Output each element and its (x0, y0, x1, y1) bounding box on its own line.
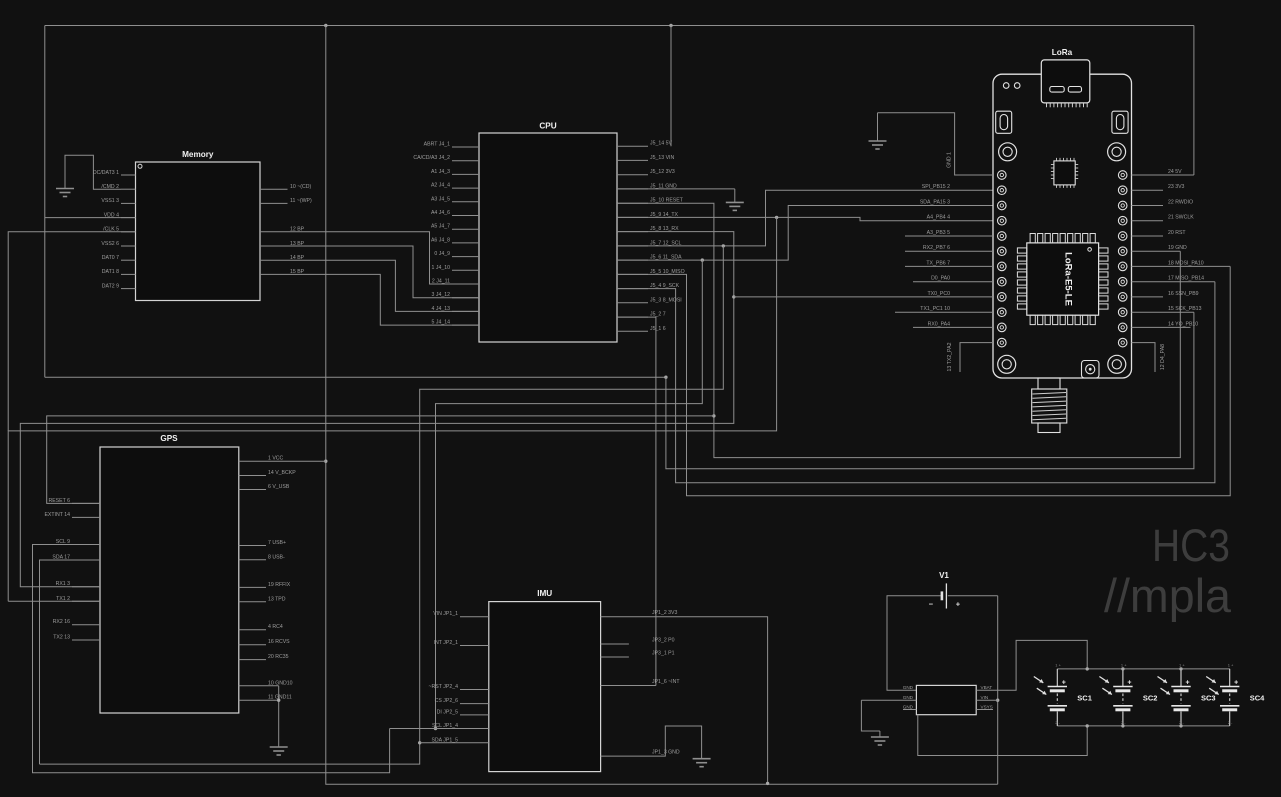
svg-text:19 GND: 19 GND (1168, 245, 1187, 251)
wire charger gnd2 (861, 700, 880, 731)
gps pin EXTINT 14 (72, 516, 100, 518)
imu pin SCL JP1_4 (390, 728, 489, 730)
cpu pin J5_8 13_RX (617, 231, 648, 233)
lora board outline (993, 74, 1132, 378)
svg-text:J5_5 10_MISO: J5_5 10_MISO (650, 269, 685, 275)
gps pin 8 USB- (239, 559, 266, 561)
imu pin VIN JP1_1 (460, 616, 489, 618)
wire cpu gnd (617, 188, 735, 190)
svg-text:SCL JP1_4: SCL JP1_4 (432, 723, 458, 729)
wire charger bottom pin to solar minus (918, 715, 1087, 756)
gps pin 14 V_BCKP (239, 475, 266, 477)
svg-text:2 -: 2 - (1055, 720, 1060, 725)
gps pin 20 RC35 (239, 659, 266, 661)
node solar SC2 bottom (1121, 724, 1124, 727)
cpu pin J5_7 12_SCL (617, 245, 648, 247)
svg-text:13 TX2_PA2: 13 TX2_PA2 (947, 342, 953, 371)
solar cell SC3 (1180, 669, 1182, 686)
node solar SC2 top (1121, 667, 1124, 670)
svg-text:13 TPD: 13 TPD (268, 596, 286, 602)
cpu pin A6 J4_8 (452, 242, 479, 244)
svg-text:GND: GND (903, 685, 914, 690)
cpu block (479, 133, 617, 342)
lora pin A3_PB3 5 (905, 235, 993, 237)
gps pin RESET 6 (72, 502, 100, 504)
wire GPS SDA drop (40, 560, 101, 764)
svg-text:VSS1 3: VSS1 3 (101, 198, 119, 204)
memory pin VSS2 6 (121, 245, 136, 247)
svg-text:+: + (1234, 680, 1238, 687)
svg-text:J5_12 3V3: J5_12 3V3 (650, 169, 675, 175)
svg-text:2 J4_11: 2 J4_11 (432, 279, 450, 285)
cpu pin J5_5 10_MISO (617, 273, 648, 275)
svg-text:SC2: SC2 (1143, 694, 1158, 703)
memory pin VSS1 3 (121, 202, 136, 204)
memory pin VDD 4 (121, 217, 136, 219)
lora pin 13 TX2_PA2 (960, 343, 993, 372)
svg-text:15 BP: 15 BP (290, 269, 305, 275)
lora pin TX1_PC1 10 (895, 311, 993, 313)
svg-text:+: + (1062, 680, 1066, 687)
wire 5V rail left drop (44, 26, 46, 378)
node IMU SCL junction (434, 727, 437, 730)
memory pin 14 BP (260, 260, 479, 311)
wire CPU SCL drop (40, 246, 724, 764)
gps block (100, 447, 239, 713)
svg-text:GND 1: GND 1 (947, 152, 953, 168)
charger pin VBAT (976, 640, 1087, 690)
lora pin 20 RST (1132, 235, 1164, 237)
lora pin GND 1 (878, 113, 994, 175)
wire Memory VDD feed (45, 217, 136, 219)
imu block (489, 602, 601, 772)
gps pin TX1 2 (72, 600, 100, 602)
imu pin JP3_2 P0 (601, 643, 629, 645)
imu pin CS JP2_6 (460, 703, 489, 705)
svg-text:SDA JP1_5: SDA JP1_5 (431, 737, 458, 743)
svg-text:JP1_6 ~INT: JP1_6 ~INT (652, 679, 680, 685)
svg-text:A3 J4_5: A3 J4_5 (431, 196, 450, 202)
gps pin 4 RC4 (239, 629, 266, 631)
cpu pin 0 J4_9 (452, 256, 479, 258)
wire Memory CLK feed (8, 232, 135, 431)
svg-text:INT JP2_1: INT JP2_1 (434, 640, 459, 646)
svg-text:DI JP2_5: DI JP2_5 (437, 709, 458, 715)
gps pin SDA 17 (72, 559, 100, 561)
svg-text:+: + (956, 600, 961, 609)
svg-text:J5_8 13_RX: J5_8 13_RX (650, 226, 679, 232)
svg-text:1 J4_10: 1 J4_10 (432, 265, 451, 271)
ground charger (879, 731, 881, 737)
svg-text:+: + (1185, 680, 1189, 687)
svg-text:−: − (929, 600, 934, 609)
cpu pin J5_14 5V (617, 145, 648, 147)
lora mount hole bottom-right (1108, 355, 1126, 373)
svg-text:3 J4_12: 3 J4_12 (432, 292, 451, 298)
svg-text:RESET 6: RESET 6 (48, 498, 70, 504)
cpu pin 3 J4_12 (452, 297, 479, 299)
lora usb pins (1046, 103, 1048, 107)
lora usb pad right (1068, 87, 1081, 93)
wire GPS RESET riser (47, 416, 714, 504)
lora ufl connector (1082, 361, 1100, 379)
memory pin 11 ~(WP) (260, 202, 288, 204)
lora pin 22 RWDIO (1132, 205, 1164, 207)
imu pin JP1_6 ~INT (601, 685, 656, 687)
svg-text:A5 J4_7: A5 J4_7 (431, 224, 450, 230)
ground gps (270, 746, 288, 748)
cpu pin 4 J4_13 (452, 310, 479, 312)
svg-text:ABRT J4_1: ABRT J4_1 (424, 142, 450, 148)
svg-text:LoRa-E5-LE: LoRa-E5-LE (1063, 252, 1074, 306)
cpu pin J5_12 3V3 (617, 174, 648, 176)
node 5V junction x671 (669, 24, 672, 27)
svg-text:SC1: SC1 (1077, 694, 1092, 703)
charger pin GND2 (861, 699, 916, 701)
wire power bus x=325.8 (326, 26, 998, 785)
lora pin 23 3V3 (1132, 189, 1164, 191)
svg-text:2 -: 2 - (1179, 720, 1184, 725)
svg-text:DC/DAT3 1: DC/DAT3 1 (93, 170, 119, 176)
svg-text:J5_4 9_SCK: J5_4 9_SCK (650, 283, 680, 289)
svg-text:J5_3 8_MOSI: J5_3 8_MOSI (650, 297, 682, 303)
gps pin 16 RCVS (239, 644, 266, 646)
ground cpu (726, 201, 744, 203)
charger pin GND3 (903, 709, 916, 711)
svg-text:V1: V1 (939, 571, 949, 580)
charger block U3 (916, 685, 976, 714)
lora pin 12 D4_PA8 (1132, 343, 1156, 372)
svg-text:20 RST: 20 RST (1168, 230, 1186, 236)
node gps gnd junction (277, 699, 280, 702)
svg-text:A2 J4_4: A2 J4_4 (431, 183, 450, 189)
cpu pin 2 J4_11 (452, 283, 479, 285)
svg-text:SCL 9: SCL 9 (56, 539, 70, 545)
node solar minus junction (1086, 724, 1089, 727)
svg-text:SDA_PA15 3: SDA_PA15 3 (920, 200, 950, 206)
cpu pin J5_2 7 (617, 316, 648, 318)
svg-text:7 USB+: 7 USB+ (268, 540, 286, 546)
wire solar minus rail (1057, 725, 1229, 727)
node GPS VCC junction (324, 460, 327, 463)
svg-text:GND: GND (903, 695, 914, 700)
svg-text:16 SSN_PB9: 16 SSN_PB9 (1168, 291, 1199, 297)
svg-text:JP1_3 GND: JP1_3 GND (652, 750, 680, 756)
lora pin 18 MOSI_PA10 (1132, 265, 1231, 267)
node CPU SDA junction (701, 258, 704, 261)
svg-text:J5_14 5V: J5_14 5V (650, 141, 672, 147)
svg-text:10 GND10: 10 GND10 (268, 680, 293, 686)
lora pad slot left (996, 111, 1012, 133)
wire CPU TX to LoRa A4 run (617, 217, 993, 220)
svg-text:JP3_2 P0: JP3_2 P0 (652, 638, 675, 644)
svg-text:Memory: Memory (182, 150, 214, 159)
svg-text:VIN JP1_1: VIN JP1_1 (433, 611, 458, 617)
lora pin TX_PB6 7 (905, 265, 993, 267)
svg-text:18 MOSI_PA10: 18 MOSI_PA10 (1168, 260, 1204, 266)
svg-text:VSS2 6: VSS2 6 (101, 241, 119, 247)
svg-text:GND: GND (903, 704, 914, 709)
cpu pin J5_4 9_SCK (617, 288, 648, 290)
cpu pin J5_9 14_TX (617, 216, 648, 218)
svg-text:A4 J4_6: A4 J4_6 (431, 210, 450, 216)
lora sma antenna connector (1038, 378, 1060, 389)
svg-text:1 +: 1 + (1121, 663, 1127, 668)
imu pin JP1_2 3V3 (601, 617, 768, 784)
cpu pin A3 J4_5 (452, 201, 479, 203)
lora mount hole bottom-left (998, 355, 1016, 373)
lora pad slot right (1112, 111, 1128, 133)
wire CPU RESET net (617, 203, 1180, 457)
node 5V junction (665.9,377.2) (664, 376, 667, 379)
wire CPU SCK net (617, 282, 1215, 483)
svg-text:RX1 3: RX1 3 (56, 581, 71, 587)
svg-text:1 VCC: 1 VCC (268, 456, 284, 462)
gps pin 7 USB+ (239, 545, 266, 547)
gps pin 10 GND10 (239, 685, 279, 687)
svg-text:DAT0 7: DAT0 7 (102, 255, 119, 261)
cpu pin A2 J4_4 (452, 187, 479, 189)
wire solar plus rail (1057, 668, 1230, 670)
lora fiducial left (1003, 83, 1009, 89)
svg-text:J5_1 6: J5_1 6 (650, 326, 666, 332)
svg-text:1 +: 1 + (1228, 663, 1234, 668)
gps pin RX2 16 (72, 624, 100, 626)
svg-text:19 RFFIX: 19 RFFIX (268, 582, 291, 588)
ground lora (877, 113, 879, 141)
lora pin 16 SSN_PB9 (1132, 296, 1164, 298)
svg-text:16 RCVS: 16 RCVS (268, 639, 290, 645)
svg-text:TX_PB6 7: TX_PB6 7 (926, 260, 950, 266)
svg-text:SDA 17: SDA 17 (52, 555, 70, 561)
svg-text:RX0_PA4: RX0_PA4 (928, 321, 951, 327)
gps pin 1 VCC (239, 460, 326, 462)
wire CPU TX drop (8, 217, 776, 601)
lora chip U1 LoRa-E5-LE (1027, 243, 1099, 315)
lora usb pad left (1050, 87, 1064, 93)
svg-text://mpla: //mpla (1104, 569, 1232, 622)
svg-text:CS JP2_6: CS JP2_6 (435, 698, 458, 704)
lora fiducial right (1014, 83, 1020, 89)
lora usb connector (1041, 60, 1090, 103)
svg-text:TX1 2: TX1 2 (56, 596, 70, 602)
memory pin /CMD 2 (121, 188, 136, 190)
cpu pin J5_10 RESET (617, 202, 648, 204)
wire 5V rail drop to LoRa 24 (1193, 26, 1195, 176)
gps pin 6 V_USB (239, 489, 266, 491)
lora right pin pads (1118, 171, 1127, 180)
node solar SC3 top (1179, 667, 1182, 670)
svg-text:21 SWCLK: 21 SWCLK (1168, 215, 1194, 221)
cpu pin 5 J4_14 (452, 324, 479, 326)
node LoRa TX0 junction (732, 295, 735, 298)
svg-text:SC4: SC4 (1250, 694, 1265, 703)
svg-text:DAT1 8: DAT1 8 (102, 269, 119, 275)
wire CPU SCL net (617, 190, 993, 246)
svg-text:J5_2 7: J5_2 7 (650, 312, 666, 318)
svg-text:4 RC4: 4 RC4 (268, 624, 283, 630)
imu pin INT JP2_1 (460, 645, 489, 647)
svg-text:11 ~(WP): 11 ~(WP) (290, 198, 312, 204)
lora mount hole top-left (999, 143, 1017, 161)
svg-text:J5_6 11_SDA: J5_6 11_SDA (650, 255, 682, 261)
wire GPS TX1 run (8, 600, 100, 602)
wire GPS SCL drop (33, 545, 390, 773)
node IMU SDA junction (418, 741, 421, 744)
lora pin RX2_PB7 6 (905, 250, 993, 252)
svg-text:5 J4_14: 5 J4_14 (432, 320, 451, 326)
svg-text:A4_PB4 4: A4_PB4 4 (927, 215, 950, 221)
cpu pin J5_1 6 (617, 330, 648, 332)
cpu pin 1 J4_10 (452, 269, 479, 271)
svg-text:2 -: 2 - (1228, 720, 1233, 725)
charger pin VSYS (976, 709, 993, 711)
imu pin JP1_3 GND (601, 726, 702, 759)
svg-text:A1 J4_3: A1 J4_3 (431, 169, 450, 175)
gps pin SCL 9 (72, 544, 100, 546)
svg-text:VIN: VIN (981, 695, 989, 700)
svg-text:JP1_2 3V3: JP1_2 3V3 (652, 610, 677, 616)
svg-text:A3_PB3 5: A3_PB3 5 (927, 230, 950, 236)
gps pin 19 RFFIX (239, 586, 266, 588)
cpu pin J5_6 11_SDA (617, 259, 648, 261)
svg-text:VSYS: VSYS (981, 704, 993, 709)
cpu pin J5_13 VIN (617, 159, 648, 161)
svg-text:1 +: 1 + (1055, 663, 1061, 668)
lora pin TX0_PC0 (734, 296, 993, 298)
lora pin 14 YO_PB10 (1132, 326, 1191, 328)
svg-text:15 SCK_PB13: 15 SCK_PB13 (1168, 306, 1202, 312)
gps pin TX2 13 (72, 639, 100, 641)
lora pin 24 5V (1132, 174, 1194, 176)
svg-text:14 V_BCKP: 14 V_BCKP (268, 470, 296, 476)
memory pin DAT1 8 (121, 273, 136, 275)
imu pin ~RST JP2_4 (460, 689, 489, 691)
svg-text:13 BP: 13 BP (290, 241, 305, 247)
memory pin DAT0 7 (121, 259, 136, 261)
svg-text:2 -: 2 - (1121, 720, 1126, 725)
memory block (136, 162, 261, 301)
node solar feed junction (1086, 667, 1089, 670)
node battery VIN junction (996, 699, 999, 702)
wire CPU RX net (20, 232, 734, 587)
svg-text:IMU: IMU (537, 589, 552, 598)
gps pin RX1 3 (72, 586, 100, 588)
svg-text:J5_9 14_TX: J5_9 14_TX (650, 212, 679, 218)
lora qfn chip U2 (1054, 161, 1075, 185)
memory pin1 mark (138, 164, 142, 168)
node CPU SCL junction (722, 244, 725, 247)
cpu pin ABRT J4_1 (452, 146, 479, 148)
ground imu (693, 758, 711, 760)
imu pin DI JP2_5 (460, 714, 489, 716)
svg-text:A6 J4_8: A6 J4_8 (431, 237, 450, 243)
wire gps gnd (278, 686, 280, 747)
node RESET/GPS junction (712, 414, 715, 417)
wire 5V top rail (45, 25, 1194, 27)
lora pin 15 SCK_PB13 (1132, 311, 1194, 313)
svg-text:EXTINT 14: EXTINT 14 (44, 512, 70, 518)
svg-text:6 V_USB: 6 V_USB (268, 484, 290, 490)
svg-text:TX2 13: TX2 13 (53, 635, 70, 641)
memory pin DAT2 9 (121, 288, 136, 290)
node CPU TX junction (775, 216, 778, 219)
memory pin DC/DAT3 1 (121, 174, 136, 176)
lora mount hole top-right (1108, 143, 1126, 161)
memory pin 12 BP (260, 232, 479, 284)
svg-text:20 RC35: 20 RC35 (268, 654, 289, 660)
solar cell SC1 (1056, 669, 1058, 686)
memory pin 10 ~(CD) (260, 188, 288, 190)
svg-text:VDD 4: VDD 4 (104, 212, 119, 218)
wire CPU SDA drop (436, 260, 703, 728)
lora pin D0_PA0 (913, 281, 993, 283)
wire CPU MISO net (617, 266, 1230, 495)
svg-text:D0_PA0: D0_PA0 (931, 276, 950, 282)
cpu pin A1 J4_3 (452, 173, 479, 175)
solar cell SC2 (1122, 669, 1124, 686)
ground memory (65, 155, 121, 189)
svg-text:22 RWDIO: 22 RWDIO (1168, 200, 1193, 206)
node imu 3v3 junction (766, 782, 769, 785)
memory pin 15 BP (260, 274, 479, 325)
svg-text:GPS: GPS (160, 434, 178, 443)
wire CPU 5V riser (670, 26, 672, 147)
memory pin 13 BP (260, 246, 479, 298)
memory pin /CLK 5 (121, 231, 136, 233)
svg-text:SC3: SC3 (1201, 694, 1216, 703)
lora pin 17 MISO_PB14 (1132, 281, 1215, 283)
charger pin VIN (976, 699, 998, 701)
svg-text:DAT2 9: DAT2 9 (102, 283, 119, 289)
gps pin 13 TPD (239, 601, 266, 603)
cpu pin J5_11 GND (617, 188, 648, 190)
lora pin 19 GND (1132, 250, 1181, 252)
wire CPU pin7 to IMU INT (617, 317, 656, 685)
svg-text:SPI_PB15 2: SPI_PB15 2 (922, 184, 950, 190)
svg-text:0 J4_9: 0 J4_9 (434, 251, 450, 257)
node solar SC3 bottom (1179, 724, 1182, 727)
svg-text:24 5V: 24 5V (1168, 169, 1182, 175)
cpu pin CA/CD/A3 J4_2 (452, 160, 479, 162)
lora pin 21 SWCLK (1132, 220, 1164, 222)
svg-text:8 USB-: 8 USB- (268, 554, 285, 560)
svg-text:J5_10 RESET: J5_10 RESET (650, 198, 684, 204)
svg-text:TX1_PC1 10: TX1_PC1 10 (920, 306, 950, 312)
node 5V junction x325.8 (324, 24, 327, 27)
cpu pin A5 J4_7 (452, 228, 479, 230)
svg-text:CA/CD/A3 J4_2: CA/CD/A3 J4_2 (413, 155, 450, 161)
cpu pin A4 J4_6 (452, 215, 479, 217)
wire battery plus drop (997, 596, 999, 785)
wire 5V rail bottom run (45, 376, 666, 378)
svg-text:23 3V3: 23 3V3 (1168, 184, 1185, 190)
wire battery plus (948, 595, 998, 597)
imu pin SDA JP1_5 (420, 742, 489, 744)
svg-text:RX2_PB7 6: RX2_PB7 6 (923, 245, 950, 251)
solar cell SC4 (1229, 669, 1231, 686)
wire 5V drop to LoRa SCK row (666, 312, 1194, 469)
svg-text:17 MISO_PB14: 17 MISO_PB14 (1168, 276, 1204, 282)
svg-text:J5_13 VIN: J5_13 VIN (650, 155, 674, 161)
svg-text:~RST JP2_4: ~RST JP2_4 (429, 684, 459, 690)
svg-text:12 D4_PA8: 12 D4_PA8 (1160, 344, 1166, 370)
svg-text:LoRa: LoRa (1052, 48, 1073, 57)
battery V1 (941, 591, 944, 600)
svg-text:RX2 16: RX2 16 (53, 619, 70, 625)
svg-text:12 BP: 12 BP (290, 227, 305, 233)
wire CPU SDA net (617, 206, 993, 261)
